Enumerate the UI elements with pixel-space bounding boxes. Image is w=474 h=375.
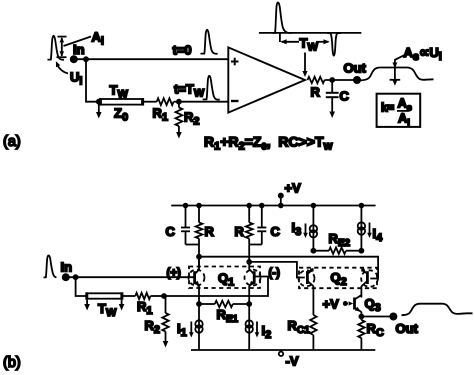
label Out (b) [396,321,419,336]
resistor R2 (a) [176,102,183,126]
current source I3 [310,225,317,237]
capacitor C left load [181,206,199,245]
svg-text:I1: I1 [177,321,187,339]
bipolar output waveform of delay-line clipping [259,2,362,55]
label T_W (b) [98,301,117,319]
transistor Q3 [355,295,362,320]
junction I3 rail [312,204,316,208]
resistor R_E2 [313,248,361,254]
input pulse waveform (b) [44,255,57,277]
capacitor C right load [249,206,266,245]
capacitor C (a output) [326,80,339,105]
svg-text:TW: TW [110,83,129,101]
resistor R1 (b) [135,293,150,299]
label (-) input [269,268,281,280]
wire In to op-amp noninverting input [74,58,229,60]
svg-text:I3: I3 [292,220,302,238]
label (b) [3,355,21,371]
wire branch to delay line (b) [76,277,87,296]
current source I1 [195,320,202,332]
label In (b) [61,260,73,275]
input pulse waveform U_i [48,36,65,60]
svg-text:C: C [340,89,350,104]
label In (a) [73,42,85,57]
junction R1-R2 (a) [177,100,181,104]
transistor Q2 right half [361,268,368,298]
node In (a) [71,56,77,62]
label R_C [367,321,384,339]
label Out (a) [344,61,367,76]
wire In to Q1 base (+) [66,276,194,278]
junction Q3 emitter - Out [359,315,363,319]
wire I3 from rail [312,206,314,251]
label T_W (a) [110,83,129,101]
wire Q1 left collector down [198,257,200,268]
svg-text:RC1: RC1 [288,318,311,336]
wire I4 from rail [360,206,362,251]
label A_s proportional U_i [404,45,442,63]
label U_i [70,70,82,88]
wire junction to Q1 base (-) [164,277,268,297]
svg-text:RE1: RE1 [217,307,239,325]
svg-text:Z0: Z0 [114,106,128,124]
label R2 (a) [184,110,200,128]
svg-text:I4: I4 [373,226,384,244]
wire delay to R1 (b) [123,295,136,297]
svg-text:t=TW: t=TW [174,82,205,100]
label Z_0 [114,106,128,124]
label t=T_W [174,82,205,100]
svg-text:Q1: Q1 [218,271,234,289]
label C left load [166,224,176,239]
op-amp U1 [228,47,305,112]
svg-text:k=: k= [381,103,394,115]
arrow I2 [255,322,260,338]
node In (b) [63,274,69,280]
svg-text:Q2: Q2 [331,270,347,288]
node Out (b) [390,313,396,319]
resistor R right load [246,206,253,262]
wire Q1 right collector to Q2 left base [249,262,305,278]
resistor R (a output) [308,77,325,83]
output step waveform (a) [360,68,434,81]
label Q1 [218,271,234,289]
interval marker T_W double arrow [281,39,330,44]
amplitude marker A_i double arrow [57,37,92,58]
label R2 (b) [145,318,161,336]
svg-text:R1: R1 [153,106,169,124]
junction Q1 left collector [197,255,201,259]
label +V (Q3) [323,297,340,312]
svg-text:TW: TW [98,301,117,319]
ground below R2 (b) [163,332,169,348]
label I4 [373,226,384,244]
matched pair outline Q2 [299,268,378,289]
svg-text:Ai: Ai [398,111,410,128]
waveform pulse at t=T_W [203,76,220,100]
svg-text:TW: TW [300,36,319,54]
svg-text:As∝Ui: As∝Ui [404,45,442,63]
svg-text:R: R [235,224,245,239]
junction R1 rail [197,204,201,208]
matched pair outline Q1 [189,267,261,289]
label -V [286,354,299,369]
junction C1 rail [184,204,188,208]
wire junction to op-amp inverting input [179,101,228,103]
waveform pulse at t=0 [201,30,218,54]
svg-text:RE2: RE2 [329,231,351,249]
node Out (a) [354,77,360,83]
label T_W (top waveform) [300,36,319,54]
junction R_E2 left [311,249,315,253]
junction Q1 right collector [247,260,251,264]
svg-text:(a): (a) [3,134,21,150]
arrow I4 [367,223,372,239]
label t=0 [173,43,192,58]
resistor R1 (a) [157,98,174,105]
junction at delay line input [97,100,101,104]
output step waveform (b) [402,304,473,316]
gain formula box k=As/Ai [377,94,421,128]
junction at In branch [84,57,88,61]
resistor R2 (b) [162,296,168,332]
junction R2 rail [247,204,251,208]
wire Q1 left emitter to rail [198,304,200,350]
svg-text:Out: Out [344,61,367,76]
label +V top [285,181,302,196]
wire R to C junction [325,79,358,81]
svg-text:RC: RC [367,321,384,339]
svg-text:t=0: t=0 [173,43,192,58]
svg-text:Ai: Ai [92,30,104,48]
junction R1-R2 (b) [162,294,166,298]
label R_C1 [288,318,311,336]
label R_E2 [329,231,351,249]
wire to Out (b) [361,316,393,318]
label (a) [3,134,21,150]
label Q2 [331,270,347,288]
transistor Q1 left half [194,257,199,304]
svg-text:C: C [166,224,176,239]
design equation text [204,134,333,153]
ground at delay line left (b) [84,300,90,311]
wire Q1 right emitter to rail [248,304,250,350]
wire -V supply rail [191,349,375,351]
junction R-C (a) [330,78,334,82]
svg-text:I2: I2 [262,323,272,341]
svg-text:In: In [61,260,73,275]
label A_i [92,30,104,48]
wire Q1 left collector to Q2 right base [199,257,378,279]
label R right load [235,224,245,239]
label R1 (b) [137,299,153,317]
svg-text:R2: R2 [145,318,161,336]
wire branch down to delay line [86,59,100,101]
svg-text:R: R [311,85,321,100]
label I3 [292,220,302,238]
svg-text:Q3: Q3 [365,296,381,314]
wire +V supply rail [171,205,375,207]
label C (a output) [340,89,350,104]
ground below R2 (a) [176,126,182,139]
svg-text:R2: R2 [184,110,200,128]
delay line T_W (b) [86,292,122,299]
terminal -V [279,350,283,356]
svg-text:+V: +V [323,297,340,312]
label R (a output) [311,85,321,100]
svg-text:(b): (b) [3,355,21,371]
transistor Q2 left half [307,268,314,315]
label C right load [271,224,281,239]
junction R_E1 right [247,302,251,306]
label Q3 [365,296,381,314]
ground at delay line input [96,102,102,119]
amplitude marker A_s [390,55,405,86]
svg-text:(-): (-) [269,268,281,280]
svg-text:+V: +V [285,181,302,196]
transistor Q1 right half [249,262,254,304]
svg-text:-V: -V [286,354,299,369]
svg-text:C: C [271,224,281,239]
label R left load [205,224,215,239]
resistor R left load [196,206,203,257]
current source I4 [358,222,365,234]
pointer arrow U_i [56,61,68,73]
label R_E1 [217,307,239,325]
pointer arrow to op-amp output [302,53,307,78]
resistor R_C [358,320,364,350]
ground at delay line right (b) [119,300,125,311]
svg-text:R: R [205,224,215,239]
resistor R_C1 [310,315,316,350]
svg-text:R1: R1 [137,299,153,317]
label I1 [177,321,187,339]
wire R1 to junction [174,101,179,103]
label R1 (a) [153,106,169,124]
arrow I1 [189,322,194,338]
terminal +V top [279,194,283,208]
svg-text:In: In [73,42,85,57]
svg-text:(+): (+) [167,268,182,280]
current source I2 [246,320,253,332]
junction C2 rail [260,204,264,208]
arrow +V to Q3 base [344,301,354,305]
delay line Z_0 with delay T_W [100,98,143,106]
svg-text:Ui: Ui [70,70,82,88]
wire R1 to junction (b) [151,295,165,297]
svg-text:R1+R2=Z0, RC>>TW: R1+R2=Z0, RC>>TW [204,134,333,153]
svg-text:Out: Out [396,321,419,336]
junction R_E2 right [359,249,363,253]
label (+) input [167,268,182,280]
wire delay line to R1 [143,101,157,103]
label I2 [262,323,272,341]
resistor R_E1 [199,301,249,307]
junction In branch (b) [74,275,78,279]
arrow I3 [303,224,308,239]
junction I4 rail [360,204,364,208]
ground below C (a) [329,105,335,118]
junction R_E1 left [197,302,201,306]
